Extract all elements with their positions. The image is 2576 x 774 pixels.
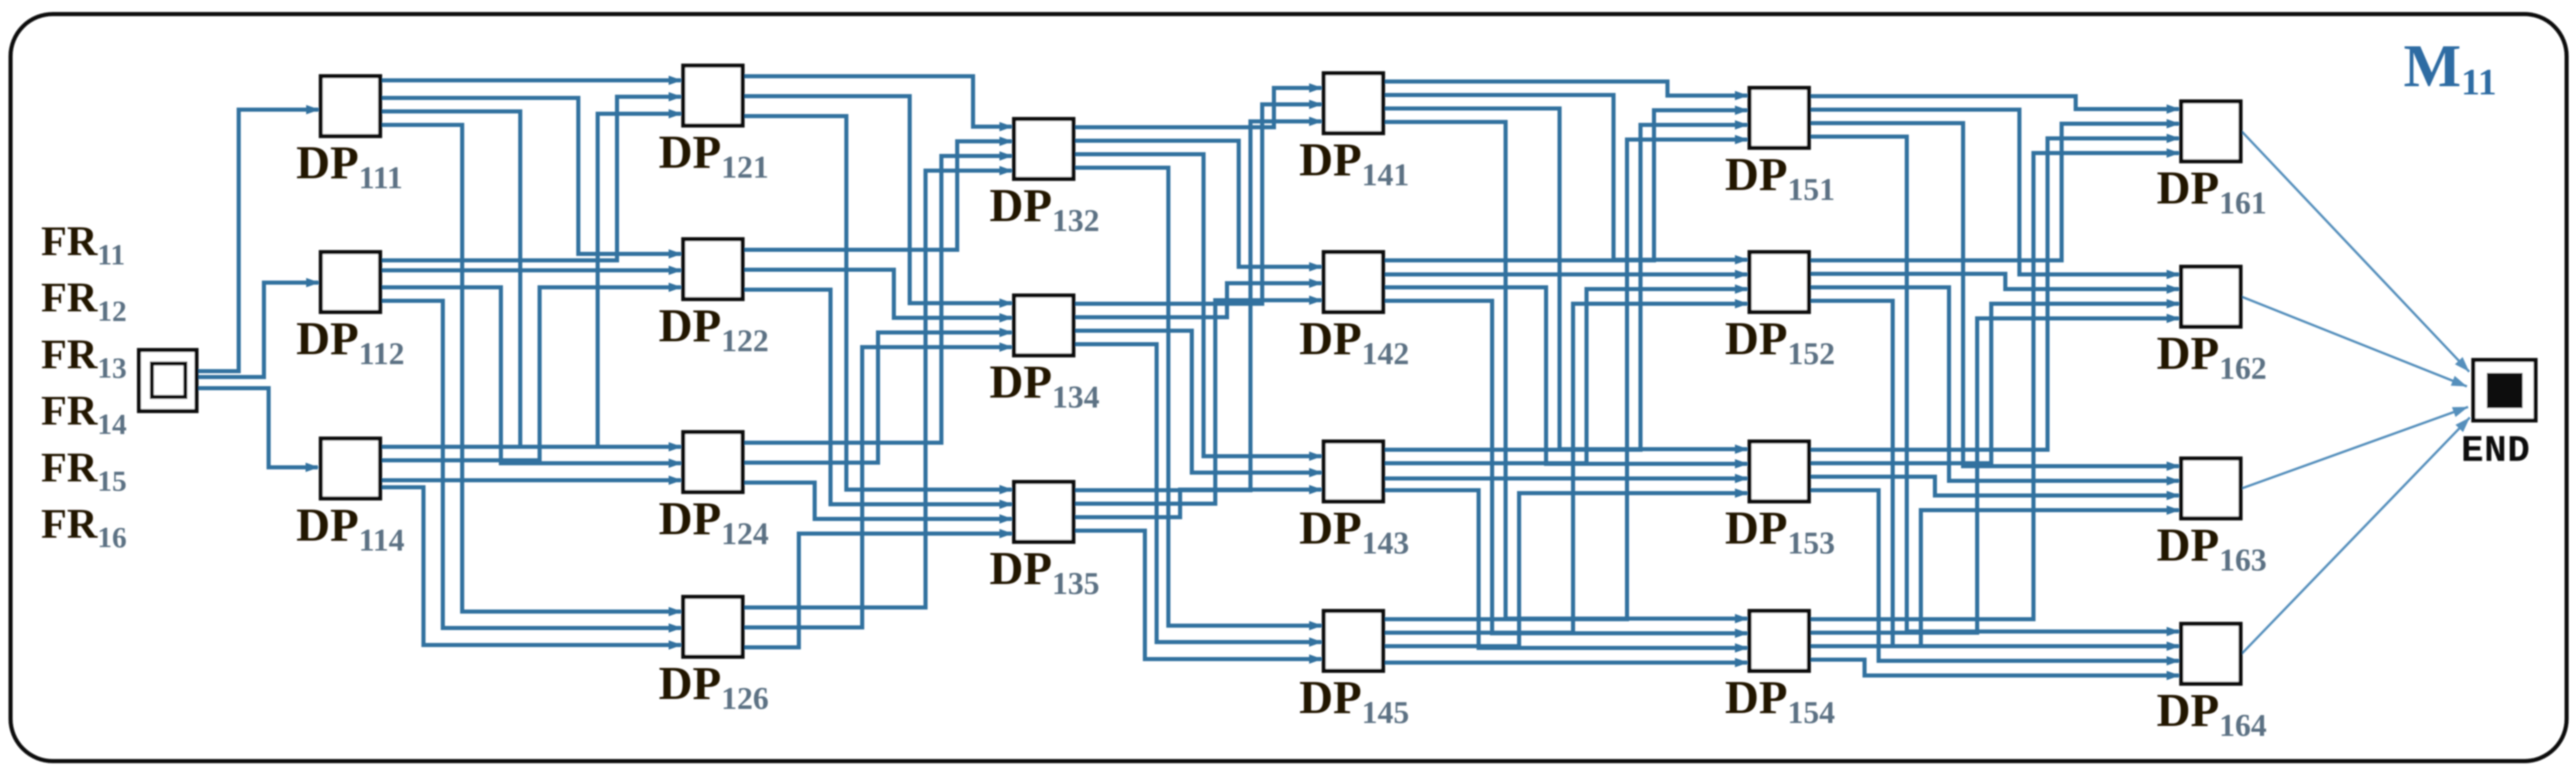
svg-text:END: END — [2461, 430, 2530, 473]
